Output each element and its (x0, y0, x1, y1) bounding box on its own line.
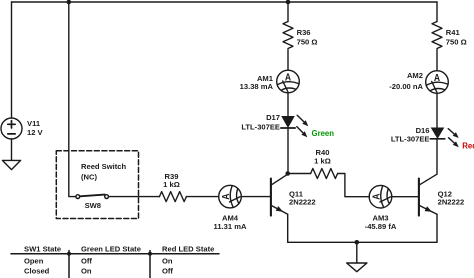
ammeter AM4 (219, 185, 242, 208)
label Red (462, 142, 474, 151)
wire AM3 to Q12 base (392, 196, 419, 198)
ground G1 (2, 160, 20, 169)
svg-text:SW1 State: SW1 State (24, 244, 61, 253)
svg-text:Green: Green (312, 129, 335, 138)
LED D16 emission arrows (448, 129, 459, 148)
wire D16 to Q12 collector (436, 139, 438, 174)
label V11 value (27, 119, 44, 137)
wire top rail to R36 (287, 2, 289, 22)
svg-text:LTL-307EE: LTL-307EE (241, 123, 280, 132)
label Reed Switch (NC) (81, 162, 127, 181)
svg-text:-45.89 fA: -45.89 fA (365, 222, 397, 231)
wire Q12 emitter down (436, 214, 438, 242)
svg-text:V11: V11 (27, 119, 41, 128)
svg-text:On: On (162, 256, 173, 265)
wire D17 to collector node (287, 128, 289, 174)
svg-text:750 Ω: 750 Ω (446, 37, 467, 46)
label R39 value (163, 172, 180, 189)
svg-text:SW8: SW8 (85, 201, 101, 210)
wire to ground G2 (356, 242, 358, 263)
svg-text:R36: R36 (297, 28, 311, 37)
table text (24, 244, 214, 275)
label Q12 value (438, 189, 465, 206)
svg-text:AM2: AM2 (407, 71, 423, 80)
svg-text:2N2222: 2N2222 (438, 198, 465, 207)
wire R36 to AM1 (287, 50, 289, 71)
svg-text:(NC): (NC) (81, 173, 97, 182)
svg-text:Closed: Closed (24, 266, 50, 275)
label D16 value (391, 126, 430, 143)
svg-text:Green LED State: Green LED State (81, 244, 141, 253)
svg-text:Reed Switch: Reed Switch (81, 162, 127, 171)
label AM3 value (365, 213, 397, 231)
wire top rail (12, 1, 438, 3)
label D17 value (241, 113, 280, 132)
svg-text:D17: D17 (266, 113, 280, 122)
resistor R40 (311, 169, 338, 179)
annotation dashed box (56, 151, 138, 219)
svg-text:1 kΩ: 1 kΩ (163, 180, 180, 189)
ammeter AM1 (277, 70, 300, 93)
wire top rail down to SW8 (69, 2, 76, 197)
svg-text:LTL-307EE: LTL-307EE (391, 134, 430, 143)
label R41 value (446, 28, 467, 46)
svg-text:Off: Off (81, 256, 92, 265)
wire left branch V11 (11, 2, 13, 118)
label SW8 (85, 201, 101, 210)
label Q11 value (289, 189, 316, 206)
voltage source V11 (1, 118, 22, 139)
wire bottom rail (288, 241, 437, 243)
label R40 value (314, 148, 331, 165)
wire R39 to AM4 (186, 196, 218, 198)
wire R40 to AM3 (338, 174, 370, 197)
resistor R36 (283, 22, 293, 49)
svg-text:Open: Open (24, 256, 44, 265)
svg-text:13.38 mA: 13.38 mA (240, 82, 274, 91)
LED D16 (430, 128, 445, 140)
wire R41 to AM2 (436, 50, 438, 71)
wire AM2 to D16 (436, 93, 438, 127)
label AM4 value (214, 213, 247, 231)
wire AM4 to Q11 base (241, 196, 271, 198)
resistor R41 (432, 22, 442, 49)
wire top rail to R41 (436, 2, 438, 22)
transistor Q11 (271, 174, 288, 215)
junction node Q11 collector (285, 171, 290, 176)
junction node at top rail to switch (67, 0, 72, 4)
wire node to R40 (288, 173, 311, 175)
ammeter AM3 (369, 185, 392, 208)
resistor R39 (159, 192, 186, 202)
wire Q11 emitter down (287, 214, 289, 242)
ammeter AM2 (426, 71, 449, 94)
LED D17 emission arrows (297, 115, 309, 137)
wire V11 to ground (11, 139, 13, 160)
svg-text:Red: Red (462, 142, 474, 151)
wire AM1 to D17 (287, 93, 289, 116)
label AM1 value (240, 74, 274, 91)
table column divider 1 (68, 251, 70, 278)
svg-text:12 V: 12 V (27, 128, 44, 137)
label R36 value (297, 28, 318, 46)
table column divider 2 (149, 251, 151, 278)
ground G2 (347, 263, 367, 272)
table header rule (11, 253, 219, 255)
LED D17 (281, 116, 295, 128)
svg-text:Red LED State: Red LED State (162, 244, 214, 253)
wire SW8 to R39 (109, 196, 160, 198)
junction node bottom ground (355, 240, 360, 245)
transistor Q12 (419, 174, 437, 215)
junction node at top rail R36 (286, 0, 291, 4)
label Green (312, 129, 335, 138)
svg-text:11.31 mA: 11.31 mA (214, 222, 247, 231)
svg-text:-20.00 nA: -20.00 nA (389, 82, 423, 91)
switch SW8 (76, 195, 109, 199)
svg-text:On: On (81, 266, 92, 275)
svg-text:Off: Off (162, 266, 173, 275)
svg-text:750 Ω: 750 Ω (297, 37, 318, 46)
svg-text:2N2222: 2N2222 (289, 198, 316, 207)
svg-text:R41: R41 (446, 28, 461, 37)
label AM2 value (389, 71, 423, 91)
svg-text:1 kΩ: 1 kΩ (314, 156, 331, 165)
